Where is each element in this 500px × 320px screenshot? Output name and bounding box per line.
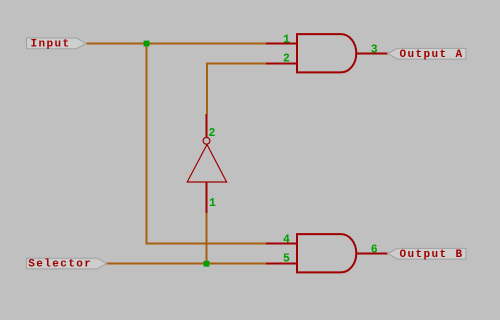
pin 1 stub U1 [266, 43, 297, 45]
AND gate U1 body [297, 34, 356, 72]
svg-text:Input: Input [31, 39, 71, 51]
svg-text:4: 4 [283, 234, 290, 247]
inverter pin 2 stub vertical [206, 114, 208, 137]
inverter U3 triangle [187, 145, 226, 183]
svg-text:1: 1 [283, 34, 290, 47]
svg-text:6: 6 [371, 243, 378, 256]
AND gate U2 body [297, 234, 356, 272]
svg-text:2: 2 [283, 53, 290, 66]
svg-text:5: 5 [283, 253, 290, 266]
svg-text:Selector: Selector [28, 259, 92, 271]
wire Input net vertical drop [147, 44, 267, 244]
svg-text:3: 3 [371, 43, 378, 56]
inverter pin 1 stub vertical [206, 183, 208, 214]
svg-text:1: 1 [209, 197, 216, 210]
svg-text:Output A: Output A [400, 49, 464, 61]
wire Input net horizontal [87, 43, 267, 45]
junction on Input net [144, 41, 150, 47]
wire Selector net horizontal [107, 263, 267, 265]
wire inverter input from selector net [206, 213, 208, 264]
port tag Input [27, 38, 87, 49]
svg-text:2: 2 [209, 127, 216, 140]
port tag Selector [27, 258, 107, 269]
svg-text:Output B: Output B [400, 249, 464, 261]
wire inverter output to AND A pin 2 [207, 64, 266, 115]
pin 2 stub U1 [266, 63, 297, 65]
pin 6 stub U2 output [356, 253, 388, 255]
port tag Output A [388, 48, 466, 59]
junction on Selector net [204, 261, 210, 267]
pin 5 stub U2 [266, 263, 297, 265]
inverter U3 bubble [203, 137, 210, 144]
port tag Output B [388, 248, 466, 259]
pin 3 stub U1 output [356, 53, 388, 55]
pin 4 stub U2 [266, 243, 297, 245]
